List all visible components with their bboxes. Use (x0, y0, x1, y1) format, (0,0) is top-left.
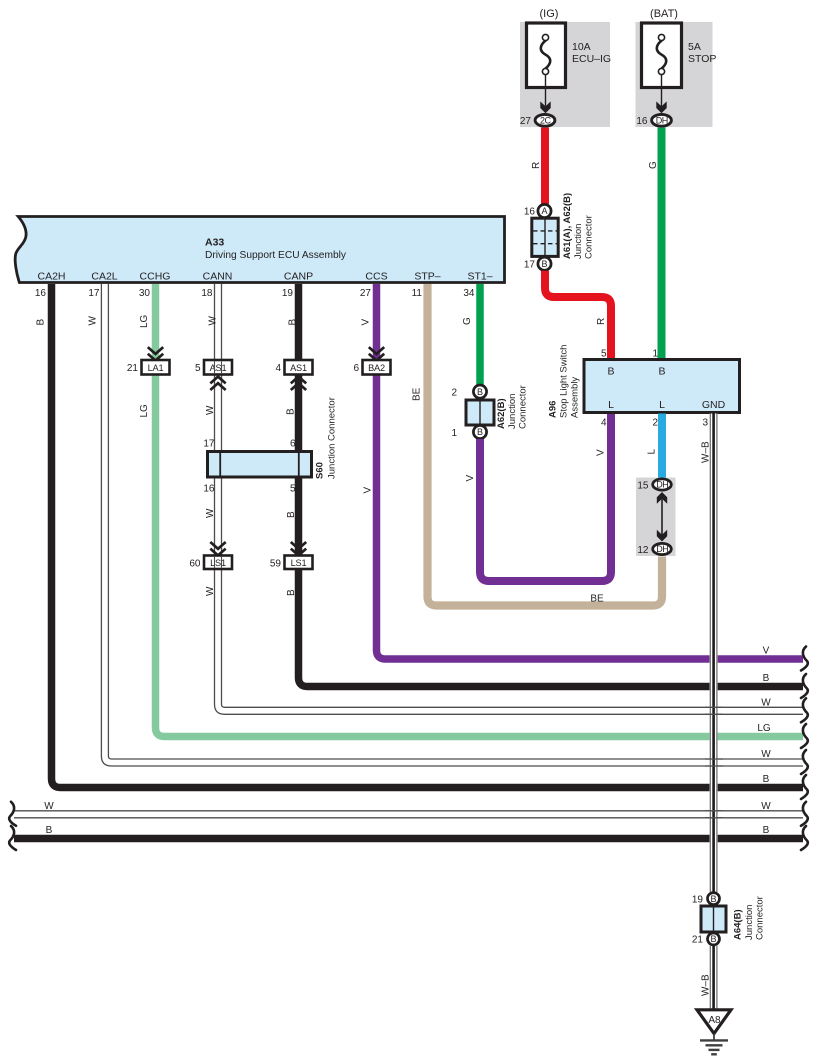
svg-text:60: 60 (189, 559, 201, 570)
svg-text:1: 1 (652, 349, 658, 360)
svg-text:LA1: LA1 (148, 363, 164, 373)
svg-text:STP–: STP– (414, 271, 440, 283)
wire L A96 pin 2 to DH 15 (658, 414, 666, 479)
svg-text:W: W (761, 801, 771, 812)
svg-text:R: R (596, 318, 607, 325)
svg-text:Junction: Junction (507, 394, 518, 429)
connector node DH 12 (653, 543, 672, 554)
svg-text:B: B (541, 259, 547, 269)
svg-text:G: G (648, 161, 659, 169)
splice AS1 (pin 4) chevrons (291, 377, 306, 390)
junction connector A62(B) pin 1 node (473, 425, 486, 438)
wire R fuse F1 to A61 pin 16 (541, 128, 549, 204)
svg-text:3: 3 (702, 418, 708, 429)
fuse F1 output lead (545, 75, 547, 107)
svg-text:R: R (531, 162, 542, 169)
svg-text:A64(B): A64(B) (733, 909, 744, 940)
svg-text:W–B: W–B (701, 441, 712, 463)
svg-text:L: L (647, 449, 658, 455)
connector node DH 15 (653, 479, 672, 490)
svg-text:16: 16 (203, 484, 215, 495)
svg-text:19: 19 (692, 895, 704, 906)
fuse F2 output lead (661, 75, 663, 107)
splice AS1 (pin 4) body (285, 360, 313, 375)
svg-text:CANP: CANP (284, 271, 313, 283)
squiggle torn ends right (801, 647, 808, 851)
wire W-B A96 GND pin 3 to A64(B) pin 19, and to ground (709, 414, 717, 893)
svg-text:L: L (659, 399, 665, 411)
splice LA1 body (142, 360, 170, 375)
svg-text:4: 4 (275, 363, 281, 374)
svg-text:LG: LG (757, 723, 771, 734)
svg-text:GND: GND (702, 399, 726, 411)
svg-text:17: 17 (88, 288, 100, 299)
connector DH gray panel (636, 478, 676, 557)
fuse F2 element (657, 41, 666, 69)
squiggle torn ends left (9, 802, 16, 850)
svg-text:DH: DH (656, 480, 668, 490)
svg-text:CA2L: CA2L (91, 271, 117, 283)
svg-text:B: B (477, 427, 483, 437)
svg-text:A: A (541, 206, 547, 216)
svg-text:B: B (36, 319, 47, 326)
svg-text:12: 12 (637, 545, 649, 556)
wire W full-width row 7 (14, 811, 803, 818)
svg-text:CA2H: CA2H (37, 271, 65, 283)
svg-text:V: V (763, 646, 770, 657)
wire BE from A33 STP- pin 11 to DH 12 (428, 284, 663, 606)
svg-text:B: B (286, 589, 297, 596)
svg-text:ST1–: ST1– (467, 271, 492, 283)
svg-text:59: 59 (270, 559, 282, 570)
wire G fuse F2 to A96 pin 1 (658, 128, 666, 360)
svg-text:Junction Connector: Junction Connector (327, 397, 338, 479)
splice BA2 chevrons (369, 347, 384, 360)
DH double arrow (661, 498, 663, 536)
svg-text:A62(B): A62(B) (496, 398, 507, 429)
svg-text:Connector: Connector (518, 385, 529, 429)
svg-text:1: 1 (451, 428, 457, 439)
svg-text:(IG): (IG) (540, 8, 559, 20)
svg-text:W: W (205, 508, 216, 518)
svg-text:W–B: W–B (701, 974, 712, 996)
svg-text:DH: DH (656, 115, 668, 125)
fuse F2 gray panel (636, 22, 713, 127)
wire R A61 pin 17 to A96 pin 5 (545, 271, 611, 360)
junction connector A61(A),A62(B) pin B node (538, 257, 551, 270)
svg-text:5: 5 (195, 363, 201, 374)
splice LS1 (pin 59) body (285, 556, 313, 570)
svg-text:Connector: Connector (584, 215, 595, 259)
svg-text:Junction: Junction (573, 224, 584, 259)
svg-text:Stop Light Switch: Stop Light Switch (559, 345, 570, 418)
svg-text:BA2: BA2 (368, 363, 385, 373)
wire W-B A64(B) pin 21 to ground A8 (709, 946, 711, 1009)
svg-text:A96: A96 (548, 401, 559, 418)
wire LG from A33 CCHG pin 30 (156, 284, 804, 737)
svg-text:10A: 10A (572, 41, 591, 53)
svg-text:B: B (710, 894, 716, 904)
junction connector A64(B) body (701, 906, 726, 932)
fuse F1 arrow (540, 101, 550, 113)
ECU A33 body (Driving Support ECU Assembly) (15, 217, 504, 283)
splice LA1 chevrons (148, 347, 163, 360)
fuse F1 element (541, 41, 550, 69)
junction connector A62(B) pin 2 node (473, 385, 486, 398)
wire V from A33 CCS pin 27 (377, 284, 804, 659)
svg-text:V: V (596, 449, 607, 456)
junction connector A64(B) pin 21 node (708, 933, 720, 945)
svg-text:CCS: CCS (365, 271, 387, 283)
svg-text:DH: DH (656, 544, 668, 554)
connector node DH (652, 114, 672, 126)
fuse F2 arrow (656, 101, 666, 113)
splice AS1 (pin 5) chevrons (210, 377, 225, 390)
svg-text:LG: LG (139, 314, 150, 328)
svg-text:CCHG: CCHG (140, 271, 171, 283)
junction connector A61(A),A62(B) pin A node (538, 204, 551, 217)
svg-text:16: 16 (636, 116, 648, 127)
svg-text:21: 21 (127, 363, 139, 374)
svg-text:17: 17 (524, 260, 536, 271)
wire W from A33 CANN pin 18 (215, 284, 804, 714)
svg-text:B: B (477, 387, 483, 397)
svg-text:B: B (286, 408, 297, 415)
junction connector A61(A),A62(B) body (532, 218, 558, 256)
svg-text:34: 34 (463, 288, 475, 299)
svg-text:4: 4 (601, 418, 607, 429)
ground point A8 (697, 1010, 731, 1034)
svg-text:LG: LG (139, 404, 150, 418)
svg-text:B: B (288, 319, 299, 326)
svg-text:B: B (658, 366, 665, 378)
svg-text:2: 2 (451, 388, 457, 399)
svg-text:2: 2 (652, 418, 658, 429)
wire B from A33 CANP pin 19 (299, 284, 804, 687)
svg-text:V: V (465, 475, 476, 482)
svg-text:Assembly: Assembly (570, 377, 581, 418)
svg-text:16: 16 (35, 288, 47, 299)
wire G from A33 ST1- pin 34 to A62(B) pin 2 (476, 284, 484, 385)
svg-text:18: 18 (201, 288, 213, 299)
junction connector A62(B) body (466, 400, 494, 425)
svg-text:21: 21 (692, 935, 704, 946)
svg-text:6: 6 (353, 363, 359, 374)
junction connector S60 body (208, 452, 312, 478)
wire B from A33 CA2H pin 16 (52, 284, 804, 788)
svg-text:AS1: AS1 (210, 363, 227, 373)
svg-text:17: 17 (203, 439, 215, 450)
svg-text:B: B (286, 511, 297, 518)
svg-text:W: W (761, 749, 771, 760)
svg-text:Driving Support ECU Assembly: Driving Support ECU Assembly (205, 250, 347, 261)
svg-text:5: 5 (290, 484, 296, 495)
fuse F2 body (642, 23, 682, 88)
wire W from A33 CA2L pin 17 (101, 284, 803, 766)
svg-text:(BAT): (BAT) (650, 8, 678, 20)
svg-text:W: W (88, 316, 99, 326)
svg-text:V: V (363, 487, 374, 494)
svg-text:V: V (361, 319, 372, 326)
svg-text:W: W (208, 316, 219, 326)
svg-text:LS1: LS1 (210, 558, 226, 568)
svg-text:Connector: Connector (755, 896, 766, 940)
svg-text:CANN: CANN (203, 271, 233, 283)
svg-text:W: W (205, 586, 216, 596)
svg-text:27: 27 (520, 116, 532, 127)
wire B full-width row 8 (14, 835, 803, 843)
svg-text:5: 5 (601, 349, 607, 360)
svg-text:BE: BE (412, 387, 423, 401)
svg-text:Junction: Junction (744, 905, 755, 940)
svg-text:30: 30 (139, 288, 151, 299)
fuse F1 gray panel (520, 22, 610, 127)
splice LS1 (pin 59) chevrons (291, 542, 306, 555)
ground symbol (713, 1034, 715, 1040)
splice BA2 body (363, 360, 391, 375)
svg-text:AS1: AS1 (290, 363, 307, 373)
svg-text:6: 6 (290, 439, 296, 450)
svg-text:B: B (607, 366, 614, 378)
svg-text:15: 15 (637, 481, 649, 492)
svg-text:LS1: LS1 (291, 558, 307, 568)
svg-text:27: 27 (360, 288, 372, 299)
svg-text:B: B (46, 825, 53, 836)
svg-text:S60: S60 (315, 462, 326, 479)
svg-text:B: B (710, 934, 716, 944)
svg-text:B: B (763, 673, 770, 684)
fuse F1 body (527, 23, 566, 88)
svg-text:ECU–IG: ECU–IG (572, 53, 611, 65)
junction connector A64(B) pin 19 node (708, 893, 720, 905)
svg-text:5A: 5A (688, 41, 701, 53)
connector node 2C (535, 114, 555, 126)
svg-text:W: W (205, 405, 216, 415)
svg-text:A61(A), A62(B): A61(A), A62(B) (562, 193, 573, 259)
svg-text:B: B (763, 774, 770, 785)
svg-text:W: W (44, 801, 54, 812)
svg-text:G: G (462, 317, 473, 325)
svg-text:W: W (761, 697, 771, 708)
switch A96 body (Stop Light Switch Assembly) (584, 360, 740, 413)
svg-text:19: 19 (282, 288, 294, 299)
svg-text:B: B (763, 825, 770, 836)
svg-text:L: L (608, 399, 614, 411)
splice AS1 (pin 5) body (204, 360, 232, 375)
svg-text:2C: 2C (540, 115, 552, 125)
svg-text:A8: A8 (708, 1015, 721, 1026)
svg-text:A33: A33 (205, 237, 224, 249)
wire V A62(B) pin 1 to A96 pin 4 (480, 414, 611, 582)
svg-text:BE: BE (590, 594, 604, 605)
splice LS1 (pin 60) chevrons (210, 542, 225, 555)
wire W crossing patches over W-B (705, 707, 723, 818)
svg-text:STOP: STOP (688, 53, 716, 65)
svg-text:16: 16 (524, 207, 536, 218)
splice LS1 (pin 60) body (204, 556, 232, 570)
svg-text:11: 11 (412, 288, 423, 299)
